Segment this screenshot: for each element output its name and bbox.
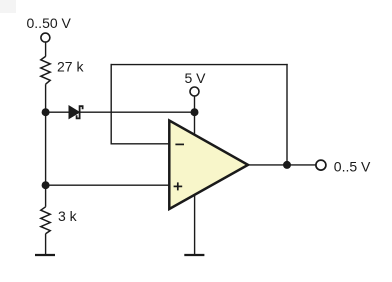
node B junction [191, 108, 199, 116]
node A junction [42, 108, 50, 116]
schottky diode D1 [69, 106, 83, 119]
terminal 0..50 V [27, 15, 72, 42]
resistor R2 3 k [41, 207, 78, 234]
wire output [248, 164, 316, 166]
wire terminal to R1 [45, 42, 47, 56]
wire feedback right vertical to node D [286, 65, 288, 165]
svg-text:27 k: 27 k [57, 59, 84, 75]
wire R2 to ground [45, 234, 47, 255]
wire node A to diode [46, 111, 69, 113]
wire diode to node B [80, 111, 195, 113]
svg-text:0..5 V: 0..5 V [334, 158, 371, 174]
wire minus input: op-amp to feedback [111, 143, 169, 145]
wire 5V terminal down to node B and op-amp supply pin [194, 96, 196, 137]
svg-text:0..50 V: 0..50 V [27, 15, 72, 31]
resistor R1 27 k [41, 56, 85, 84]
wire node C down to R2 [45, 185, 47, 207]
wire R1 to node A [45, 84, 47, 112]
ground under R2 [35, 254, 55, 256]
node D junction [283, 161, 291, 169]
wire plus input: node C to op-amp [46, 184, 170, 186]
op-amp U1 [169, 121, 248, 210]
terminal 5 V [185, 70, 207, 96]
ground under op-amp [184, 254, 204, 256]
svg-text:5 V: 5 V [185, 70, 207, 86]
wire feedback top horizontal [111, 64, 287, 66]
terminal 0..5 V [316, 158, 371, 174]
wire node A down to node C [45, 112, 47, 185]
wire op-amp ground pin [194, 195, 196, 255]
node C junction [42, 181, 50, 189]
wire feedback left vertical [110, 65, 112, 144]
svg-text:3 k: 3 k [58, 208, 78, 224]
